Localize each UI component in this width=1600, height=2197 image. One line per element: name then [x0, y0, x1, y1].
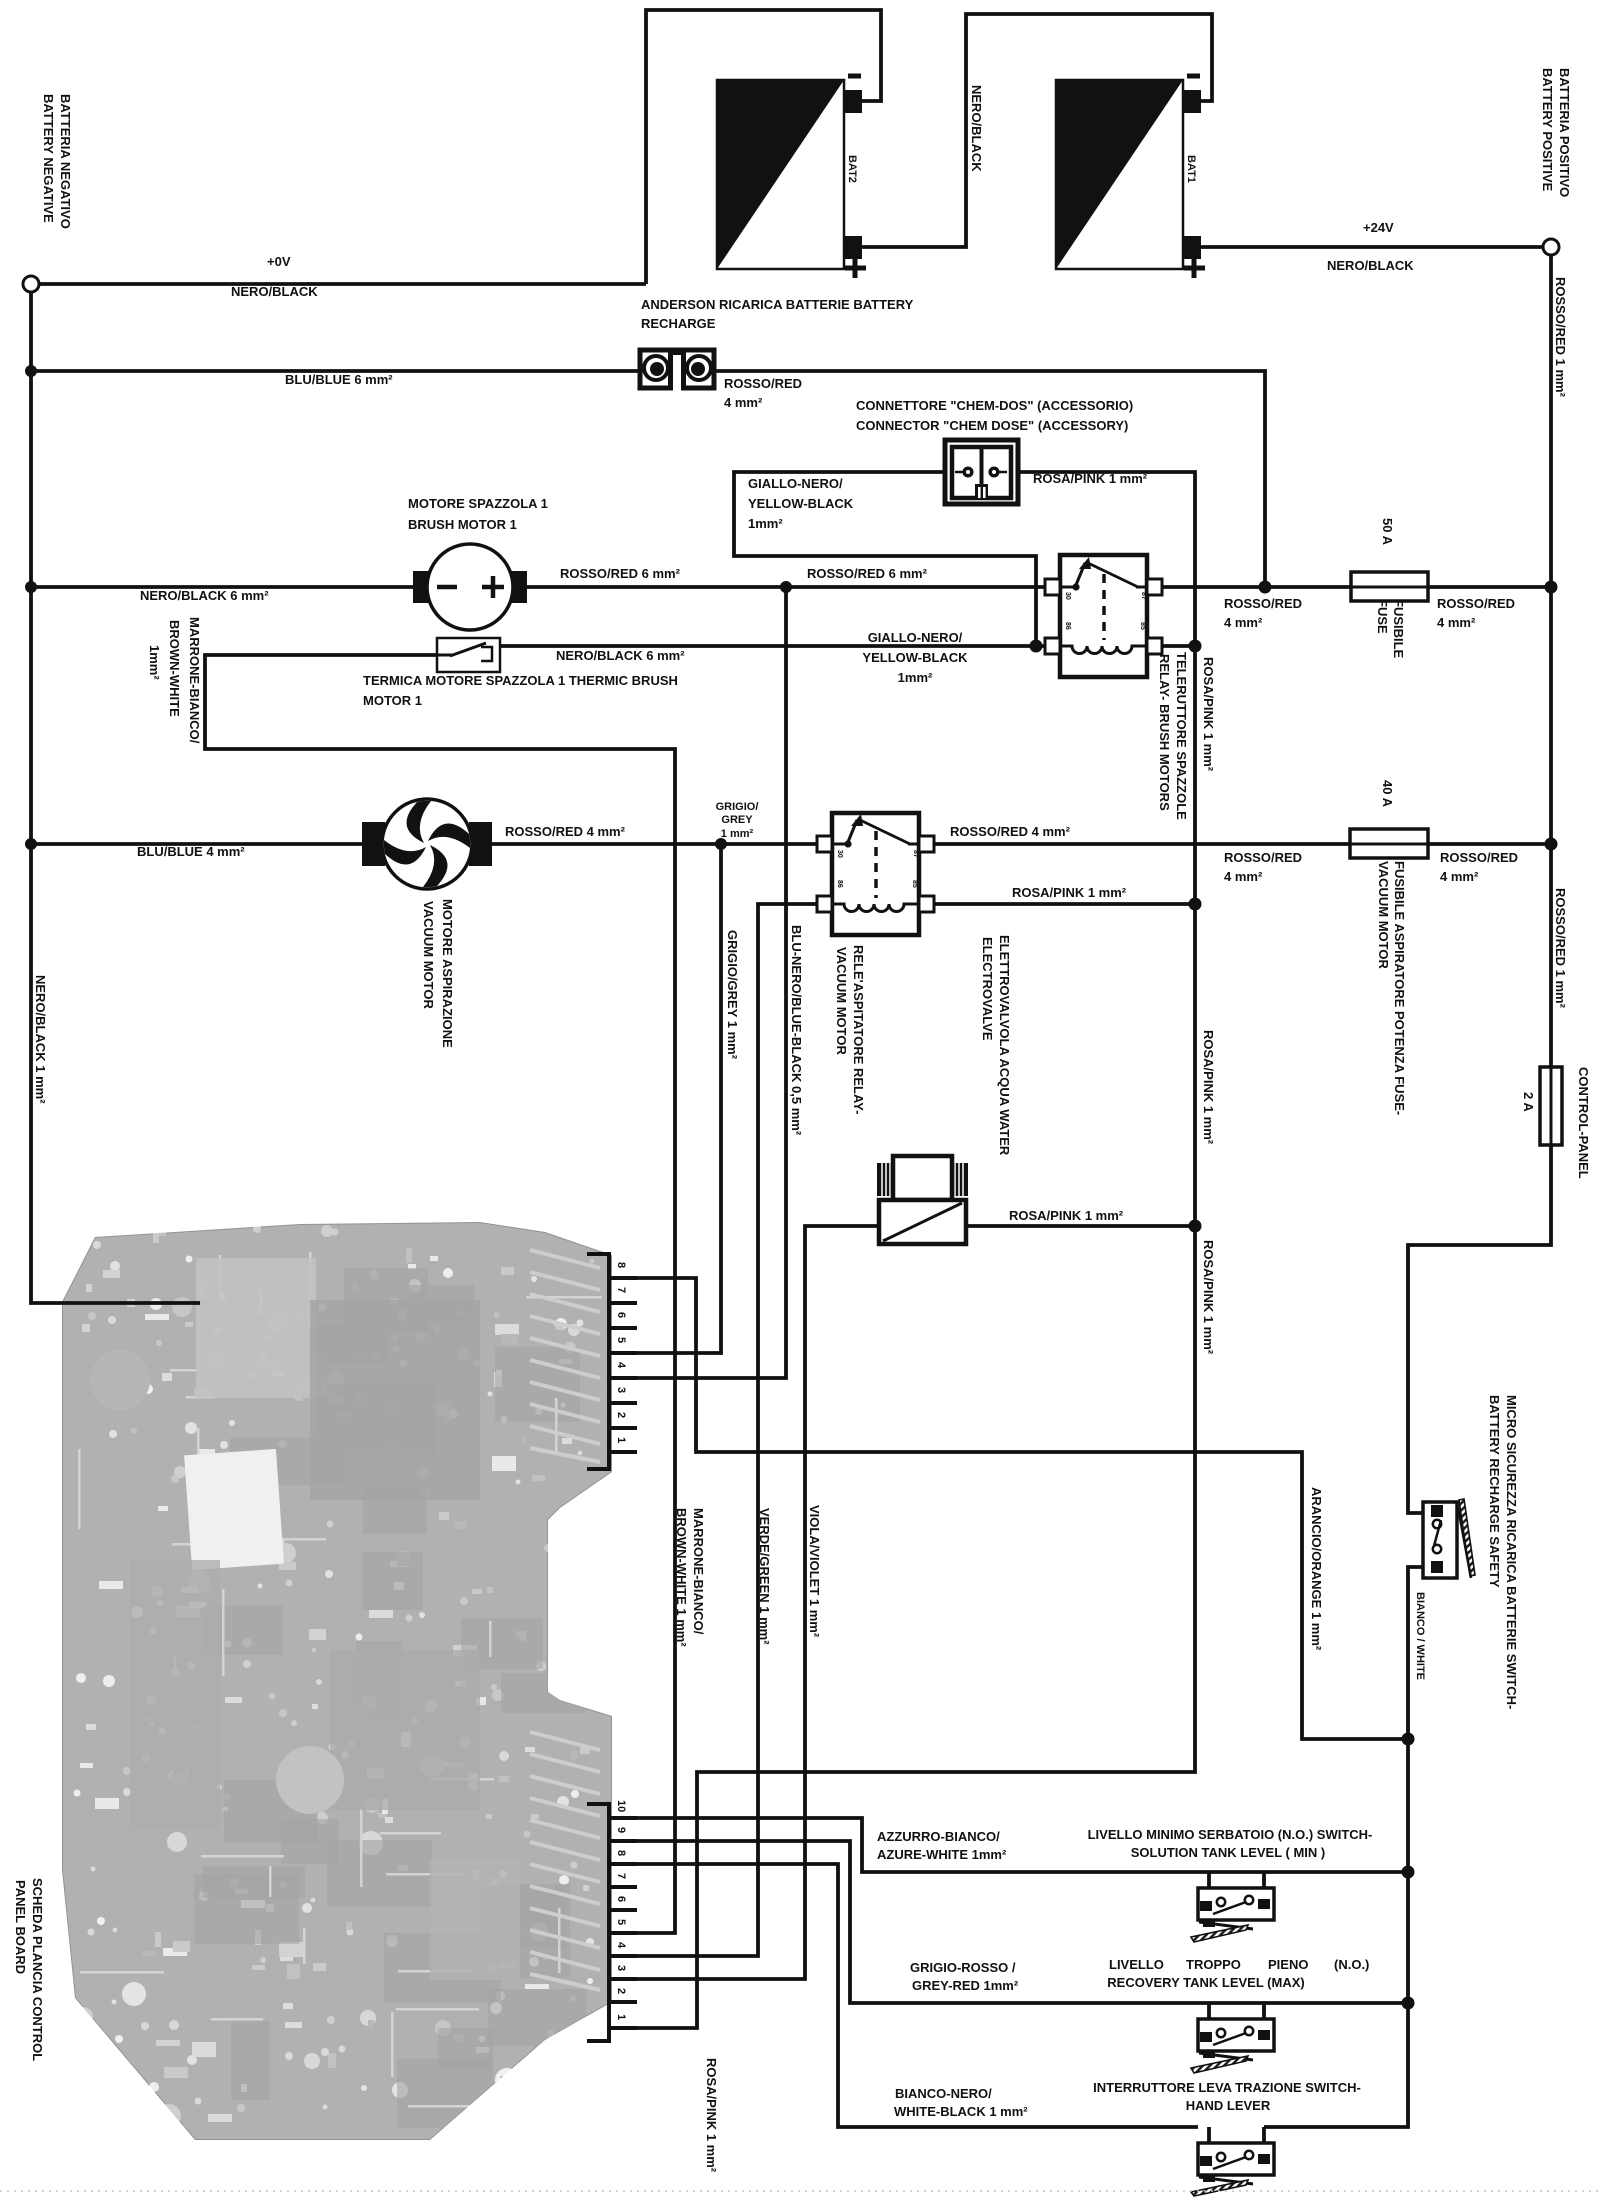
svg-text:VACUUM MOTOR: VACUUM MOTOR: [834, 947, 849, 1055]
relay K1 teleruttore spazzole (brush motors relay): [1045, 555, 1162, 677]
svg-text:7: 7: [615, 1287, 627, 1293]
relay K2 rele aspiratore (vacuum motor relay): [817, 813, 934, 935]
svg-text:MARRONE-BIANCO/: MARRONE-BIANCO/: [187, 617, 202, 744]
svg-text:ROSA/PINK 1 mm²: ROSA/PINK 1 mm²: [1009, 1208, 1124, 1223]
wire vacuum motor output ROSSO/RED 4mm: [427, 842, 834, 846]
svg-text:MICRO SICUREZZA RICARICA BATTE: MICRO SICUREZZA RICARICA BATTERIE SWITCH…: [1504, 1395, 1519, 1709]
wire thermal breaker output to relay1 coil: [500, 644, 1048, 648]
wire BLU/BLUE 6mm bus: [31, 369, 639, 373]
svg-text:GREY-RED 1mm²: GREY-RED 1mm²: [912, 1978, 1019, 1993]
svg-text:86: 86: [1064, 622, 1071, 630]
switch SW2 recovery tank level max: [1191, 2019, 1274, 2073]
svg-text:ROSSO/RED 4 mm²: ROSSO/RED 4 mm²: [950, 824, 1071, 839]
svg-text:RELE'ASPITATORE RELAY-: RELE'ASPITATORE RELAY-: [851, 945, 866, 1114]
svg-text:TERMICA MOTORE SPAZZOLA 1 THER: TERMICA MOTORE SPAZZOLA 1 THERMIC BRUSH: [363, 673, 678, 688]
svg-text:ARANCIO/ORANGE 1 mm²: ARANCIO/ORANGE 1 mm²: [1309, 1487, 1324, 1651]
fuse F2 40A fusibile aspiratore: [1350, 829, 1428, 858]
svg-text:AZZURRO-BIANCO/: AZZURRO-BIANCO/: [877, 1829, 1000, 1844]
svg-text:5: 5: [615, 1919, 627, 1925]
svg-text:4 mm²: 4 mm²: [1224, 869, 1263, 884]
wire GRIGIO/GREY vertical to top connector pin5: [611, 844, 721, 1353]
wire relay2 coil left VERDE/GREEN to bottom connector pin4: [611, 904, 821, 1956]
svg-text:RELAY- BRUSH MOTORS: RELAY- BRUSH MOTORS: [1157, 654, 1172, 811]
svg-text:3: 3: [615, 1387, 627, 1393]
wire GIALLO-NERO from chem-dos connector: [734, 472, 1036, 646]
connector J2 bottom 10-pin (panel board): [587, 1804, 637, 2041]
svg-text:GRIGIO/GREY 1 mm²: GRIGIO/GREY 1 mm²: [725, 930, 740, 1060]
svg-text:ROSA/PINK 1 mm²: ROSA/PINK 1 mm²: [1012, 885, 1127, 900]
svg-text:MOTOR 1: MOTOR 1: [363, 693, 422, 708]
svg-text:VERDE/GREEN 1 mm²: VERDE/GREEN 1 mm²: [757, 1508, 772, 1645]
wire left vertical main bus: [31, 292, 200, 1303]
wire BAT1 series link NERO/BLACK: [862, 14, 1212, 247]
svg-text:4 mm²: 4 mm²: [1224, 615, 1263, 630]
wire brush motor output ROSSO/RED 6mm: [513, 585, 1048, 589]
switch SW3 hand lever traction: [1191, 2143, 1274, 2196]
svg-text:1mm²: 1mm²: [748, 516, 783, 531]
svg-text:BATTERY NEGATIVE: BATTERY NEGATIVE: [41, 94, 56, 223]
wire ARANCIO/ORANGE top connector pin8 to safety bus: [611, 1278, 1408, 1739]
wire relay1 output to 50A fuse to +24V bus: [1159, 585, 1551, 589]
svg-text:HAND LEVER: HAND LEVER: [1186, 2098, 1271, 2113]
fuse F3 2A control panel: [1540, 1067, 1562, 1145]
svg-text:5: 5: [615, 1337, 627, 1343]
svg-text:86: 86: [836, 880, 843, 888]
svg-text:1: 1: [615, 1437, 627, 1443]
svg-text:CONTROL-PANEL: CONTROL-PANEL: [1576, 1067, 1591, 1179]
svg-text:MOTORE ASPIRAZIONE: MOTORE ASPIRAZIONE: [440, 899, 455, 1048]
connector Anderson battery recharge: [640, 349, 714, 395]
svg-text:BLU/BLUE 4 mm²: BLU/BLUE 4 mm²: [137, 844, 245, 859]
node battery negative terminal (open circle +0V): [23, 276, 39, 292]
svg-text:2: 2: [615, 1988, 627, 1994]
svg-text:ROSSO/RED: ROSSO/RED: [724, 376, 802, 391]
svg-text:+24V: +24V: [1363, 220, 1394, 235]
PCB white label sticker: [184, 1449, 284, 1570]
svg-text:ROSA/PINK 1 mm²: ROSA/PINK 1 mm²: [1201, 657, 1216, 772]
wire vacuum bus BLU/BLUE 4mm: [31, 842, 427, 846]
svg-text:87: 87: [1140, 592, 1147, 600]
svg-text:YELLOW-BLACK: YELLOW-BLACK: [862, 650, 968, 665]
fuse F1 50A fusibile fuse: [1351, 572, 1428, 601]
svg-text:LIVELLO MINIMO SERBATOIO (N.O.: LIVELLO MINIMO SERBATOIO (N.O.) SWITCH-: [1088, 1827, 1373, 1842]
svg-text:TROPPO: TROPPO: [1186, 1957, 1241, 1972]
svg-text:7: 7: [615, 1873, 627, 1879]
battery BAT1: [1056, 76, 1205, 278]
node battery positive terminal (open circle +24V): [1543, 239, 1559, 255]
svg-text:SCHEDA PLANCIA CONTROL: SCHEDA PLANCIA CONTROL: [30, 1878, 45, 2061]
svg-text:BLU/BLUE 6 mm²: BLU/BLUE 6 mm²: [285, 372, 393, 387]
svg-text:ROSSO/RED: ROSSO/RED: [1440, 850, 1518, 865]
svg-text:NERO/BLACK: NERO/BLACK: [231, 284, 318, 299]
wire thermal breaker left loop MARRONE-BIANCO: [205, 655, 675, 1933]
switch SW4 micro sicurezza battery recharge safety: [1423, 1499, 1475, 1578]
svg-text:ROSSO/RED 1 mm²: ROSSO/RED 1 mm²: [1553, 888, 1568, 1009]
svg-text:BRUSH MOTOR 1: BRUSH MOTOR 1: [408, 517, 517, 532]
wire +0V horizontal top left: [39, 282, 646, 286]
wire electrovalve right ROSA/PINK to vertical: [966, 1224, 1195, 1228]
svg-text:FUSIBILE ASPIRATORE POTENZA FU: FUSIBILE ASPIRATORE POTENZA FUSE-: [1392, 861, 1407, 1115]
svg-text:RECHARGE: RECHARGE: [641, 316, 716, 331]
svg-text:BATTERY POSITIVE: BATTERY POSITIVE: [1540, 68, 1555, 192]
wire relay1 coil right to ROSA/PINK vertical: [1159, 644, 1195, 648]
svg-text:BATTERIA POSITIVO: BATTERIA POSITIVO: [1557, 68, 1572, 197]
svg-text:85: 85: [911, 880, 918, 888]
svg-text:BLU-NERO/BLUE-BLACK 0,5 mm²: BLU-NERO/BLUE-BLACK 0,5 mm²: [789, 925, 804, 1136]
svg-text:ROSA/PINK 1 mm²: ROSA/PINK 1 mm²: [1033, 471, 1148, 486]
svg-text:50 A: 50 A: [1380, 518, 1395, 546]
svg-text:2: 2: [615, 1412, 627, 1418]
svg-text:30: 30: [1064, 592, 1071, 600]
wire switch1 drop wires: [1207, 1872, 1211, 1903]
svg-text:VACUUM MOTOR: VACUUM MOTOR: [421, 901, 436, 1009]
motor M1 brush motor (MOTORE SPAZZOLA 1): [413, 544, 527, 630]
svg-text:+0V: +0V: [267, 254, 291, 269]
svg-text:ROSSO/RED 6 mm²: ROSSO/RED 6 mm²: [807, 566, 928, 581]
wire +24V bus right side vertical: [1549, 255, 1553, 1067]
svg-text:ROSSO/RED 4 mm²: ROSSO/RED 4 mm²: [505, 824, 626, 839]
svg-text:4 mm²: 4 mm²: [724, 395, 763, 410]
svg-text:MARRONE-BIANCO/: MARRONE-BIANCO/: [691, 1508, 706, 1635]
svg-text:1 mm²: 1 mm²: [721, 828, 754, 840]
wire BAT1 positive to +24V terminal: [1201, 245, 1543, 249]
svg-text:RECOVERY TANK LEVEL (MAX): RECOVERY TANK LEVEL (MAX): [1107, 1975, 1304, 1990]
svg-text:AZURE-WHITE 1mm²: AZURE-WHITE 1mm²: [877, 1847, 1007, 1862]
svg-text:GRIGIO/: GRIGIO/: [716, 801, 759, 813]
wire BLU-NERO/BLUE-BLACK vertical brush bus to top connector pin4: [611, 587, 786, 1378]
svg-text:GIALLO-NERO/: GIALLO-NERO/: [868, 630, 963, 645]
svg-text:YELLOW-BLACK: YELLOW-BLACK: [748, 496, 854, 511]
wire anderson to brush bus (ROSSO/RED 4mm): [710, 371, 1265, 587]
svg-text:1: 1: [615, 2014, 627, 2020]
svg-text:2 A: 2 A: [1521, 1092, 1536, 1112]
svg-text:GIALLO-NERO/: GIALLO-NERO/: [748, 476, 843, 491]
svg-text:SOLUTION TANK LEVEL ( MIN ): SOLUTION TANK LEVEL ( MIN ): [1131, 1845, 1326, 1860]
wire switch3 drop wires: [1207, 2127, 1211, 2158]
svg-text:1mm²: 1mm²: [147, 645, 162, 680]
svg-text:VACUUM MOTOR: VACUUM MOTOR: [1376, 861, 1391, 969]
svg-text:BIANCO-NERO/: BIANCO-NERO/: [895, 2086, 992, 2101]
svg-text:BATTERIA NEGATIVO: BATTERIA NEGATIVO: [58, 94, 73, 229]
svg-text:ROSSO/RED 6 mm²: ROSSO/RED 6 mm²: [560, 566, 681, 581]
connector J1 top 8-pin (panel board): [587, 1254, 637, 1469]
svg-text:BROWN-WHITE 1 mm²: BROWN-WHITE 1 mm²: [674, 1508, 689, 1647]
svg-text:NERO/BLACK 1 mm²: NERO/BLACK 1 mm²: [33, 975, 48, 1104]
svg-text:ELETTROVALVOLA ACQUA WATER: ELETTROVALVOLA ACQUA WATER: [997, 935, 1012, 1156]
svg-text:4: 4: [615, 1942, 627, 1949]
battery BAT2: [717, 76, 866, 278]
wire bottom connector pin10 AZZURRO-BIANCO to switch1: [611, 1818, 1408, 1872]
wire relay2 coil right to ROSA/PINK vertical: [931, 902, 1195, 906]
svg-text:(N.O.): (N.O.): [1334, 1957, 1369, 1972]
svg-text:40 A: 40 A: [1380, 780, 1395, 808]
thermal breaker TERMICA MOTORE SPAZZOLA 1: [437, 638, 500, 672]
svg-text:MOTORE SPAZZOLA 1: MOTORE SPAZZOLA 1: [408, 496, 548, 511]
svg-text:BROWN-WHITE: BROWN-WHITE: [167, 620, 182, 717]
svg-text:CONNECTOR "CHEM DOSE" (ACCESSO: CONNECTOR "CHEM DOSE" (ACCESSORY): [856, 418, 1128, 433]
svg-text:4 mm²: 4 mm²: [1437, 615, 1476, 630]
wire bottom connector pin9 GRIGIO-ROSSO to switch2: [611, 1841, 1408, 2003]
svg-text:PANEL BOARD: PANEL BOARD: [13, 1880, 28, 1974]
PCB photo: SCHEDA PLANCIA control panel board (faded photograph): [62, 1222, 612, 2149]
svg-text:6: 6: [615, 1312, 627, 1318]
electrovalve EV1 elettrovalvola acqua: [877, 1156, 968, 1244]
pin numbers J2 10..1: [615, 1800, 627, 2020]
svg-text:8: 8: [615, 1262, 627, 1268]
svg-text:FUSIBILE: FUSIBILE: [1391, 599, 1406, 659]
svg-text:9: 9: [615, 1827, 627, 1833]
connector CHEM-DOS accessory: [945, 440, 1018, 504]
svg-text:NERO/BLACK: NERO/BLACK: [1327, 258, 1414, 273]
svg-text:1mm²: 1mm²: [898, 670, 933, 685]
svg-text:ANDERSON RICARICA BATTERIE BAT: ANDERSON RICARICA BATTERIE BATTERY: [641, 297, 914, 312]
svg-text:ROSA/PINK 1 mm²: ROSA/PINK 1 mm²: [704, 2058, 719, 2173]
wire 2A fuse to control panel branch: [1408, 1145, 1551, 1513]
svg-text:NERO/BLACK 6 mm²: NERO/BLACK 6 mm²: [140, 588, 269, 603]
svg-text:TELERUTTORE SPAZZOLE: TELERUTTORE SPAZZOLE: [1174, 652, 1189, 820]
svg-text:3: 3: [615, 1965, 627, 1971]
page bottom dotted border: [0, 2190, 1600, 2192]
wire electrovalve left VIOLA/VIOLET to bottom connector pin3: [611, 1226, 879, 1979]
svg-text:BAT1: BAT1: [1185, 155, 1197, 183]
svg-text:BIANCO / WHITE: BIANCO / WHITE: [1414, 1592, 1426, 1680]
svg-text:PIENO: PIENO: [1268, 1957, 1308, 1972]
svg-text:ROSSO/RED: ROSSO/RED: [1224, 596, 1302, 611]
wire safety switch lower to bottom bus BIANCO/WHITE: [1264, 1567, 1429, 2127]
svg-text:87: 87: [912, 850, 919, 858]
svg-text:VIOLA/VIOLET 1 mm²: VIOLA/VIOLET 1 mm²: [807, 1505, 822, 1638]
svg-text:85: 85: [1139, 622, 1146, 630]
wire battery negative loop BAT2: [646, 10, 881, 284]
wire switch2 drop wires: [1207, 2003, 1211, 2034]
svg-text:8: 8: [615, 1850, 627, 1856]
svg-text:10: 10: [615, 1800, 627, 1812]
motor M2 vacuum motor (MOTORE ASPIRAZIONE) with fan symbol: [362, 799, 492, 889]
svg-text:6: 6: [615, 1896, 627, 1902]
pin numbers J1 8..1: [615, 1262, 627, 1443]
PCB heatsink fins upper: [530, 1250, 600, 1462]
svg-text:BAT2: BAT2: [846, 155, 858, 183]
wire relay2 output to 40A fuse to +24V bus: [918, 842, 1551, 846]
svg-text:WHITE-BLACK 1 mm²: WHITE-BLACK 1 mm²: [894, 2104, 1028, 2119]
svg-text:NERO/BLACK: NERO/BLACK: [969, 85, 984, 172]
svg-text:GREY: GREY: [721, 814, 753, 826]
svg-text:LIVELLO: LIVELLO: [1109, 1957, 1164, 1972]
svg-text:GRIGIO-ROSSO /: GRIGIO-ROSSO /: [910, 1960, 1016, 1975]
svg-text:BATTERY RECHARGE SAFETY: BATTERY RECHARGE SAFETY: [1487, 1395, 1502, 1588]
svg-text:30: 30: [836, 850, 843, 858]
PCB heatsink fins lower: [530, 1732, 600, 1990]
wire ROSA/PINK from chem-dos right to vertical: [611, 472, 1195, 2028]
wire bottom connector pin8 BIANCO-NERO to switch3: [611, 1864, 1198, 2127]
wire brush motor bus NERO/BLACK 6mm: [31, 585, 427, 589]
svg-text:ROSA/PINK 1 mm²: ROSA/PINK 1 mm²: [1201, 1240, 1216, 1355]
svg-text:ROSSO/RED: ROSSO/RED: [1437, 596, 1515, 611]
switch SW1 solution tank level min: [1191, 1888, 1274, 1942]
svg-text:4: 4: [615, 1362, 627, 1369]
svg-text:4 mm²: 4 mm²: [1440, 869, 1479, 884]
svg-text:ELECTROVALVE: ELECTROVALVE: [980, 937, 995, 1041]
svg-text:CONNETTORE "CHEM-DOS" (ACCESSO: CONNETTORE "CHEM-DOS" (ACCESSORIO): [856, 398, 1133, 413]
svg-text:ROSSO/RED: ROSSO/RED: [1224, 850, 1302, 865]
svg-text:ROSSO/RED 1 mm²: ROSSO/RED 1 mm²: [1553, 277, 1568, 398]
svg-text:NERO/BLACK 6 mm²: NERO/BLACK 6 mm²: [556, 648, 685, 663]
svg-text:ROSA/PINK 1 mm²: ROSA/PINK 1 mm²: [1201, 1030, 1216, 1145]
svg-text:INTERRUTTORE LEVA TRAZIONE SWI: INTERRUTTORE LEVA TRAZIONE SWITCH-: [1093, 2080, 1361, 2095]
svg-text:FUSE: FUSE: [1375, 599, 1390, 634]
